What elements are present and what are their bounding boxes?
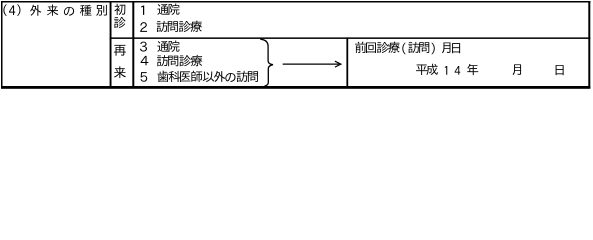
outer border right [588, 1, 590, 89]
arrow pointing to previous-visit-date box [283, 61, 341, 67]
item 3 tsuin [140, 40, 180, 51]
item 2 houmon shinryo (home-visit care) [140, 21, 202, 32]
header text (4) gairai no shubetsu [3, 4, 106, 16]
label shoshin (first visit) [114, 4, 125, 28]
vertical divider after shoshin/sairai column [132, 1, 134, 86]
outer border top [1, 1, 591, 3]
vertical left edge of previous-visit-date box [346, 37, 348, 86]
item 1 tsuin (outpatient visit) [141, 3, 179, 14]
outer border left [1, 1, 3, 89]
horizontal divider between first-visit and revisit rows [110, 37, 591, 39]
item 5 shikaishi igai no houmon (visit by non-dentist) [140, 71, 257, 82]
date line Heisei 14 year month day [416, 64, 564, 75]
outer border bottom [1, 86, 590, 89]
vertical divider after left header cell [110, 1, 112, 86]
label sairai (re-visit) [114, 45, 126, 78]
curly brace grouping items 3-5 [260, 39, 273, 86]
label zenkai shinryo (houmon) tsukihi [355, 42, 460, 55]
item 4 houmon shinryo [141, 55, 203, 66]
